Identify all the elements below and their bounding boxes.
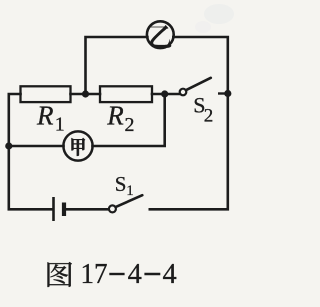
svg-text:R: R — [106, 100, 124, 130]
svg-text:1: 1 — [55, 114, 65, 136]
svg-text:1: 1 — [126, 183, 134, 199]
svg-text:2: 2 — [204, 105, 214, 126]
svg-text:2: 2 — [125, 114, 135, 136]
svg-text:R: R — [36, 100, 54, 130]
svg-text:4: 4 — [128, 259, 142, 290]
svg-text:S: S — [115, 172, 127, 196]
svg-text:4: 4 — [163, 259, 177, 290]
svg-text:17: 17 — [81, 258, 108, 290]
